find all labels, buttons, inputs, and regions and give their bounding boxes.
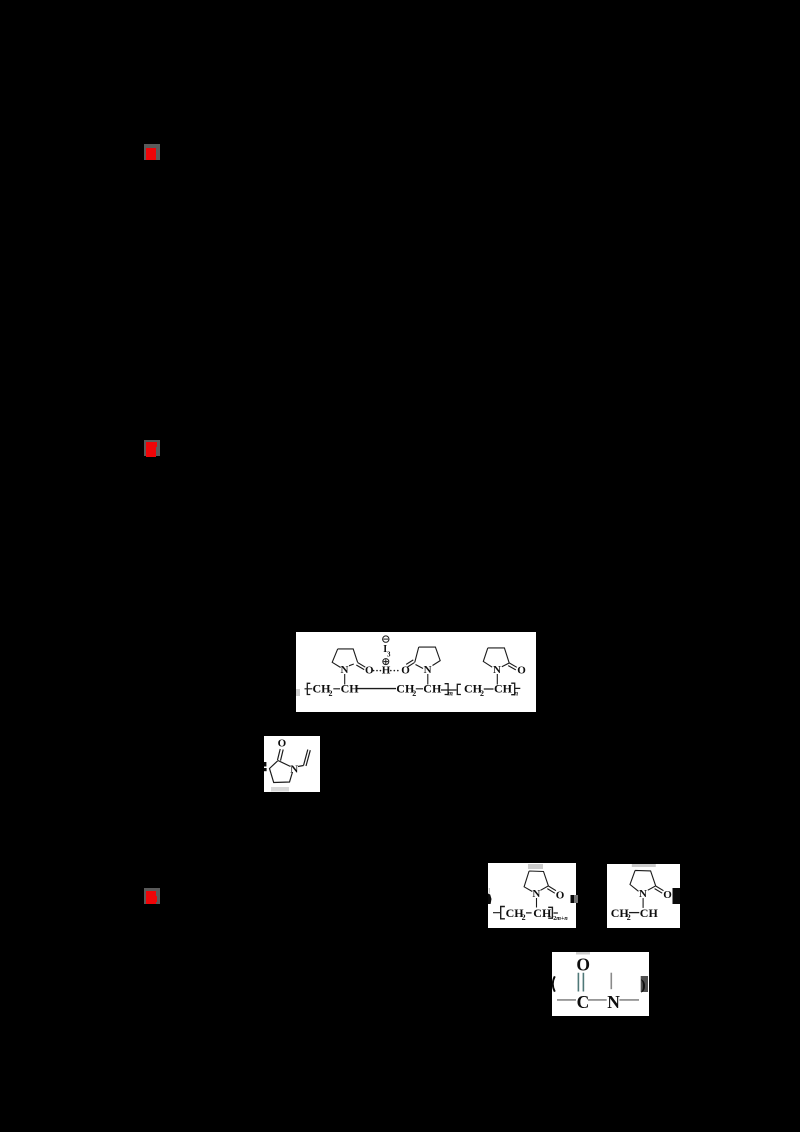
CH2-CH bond dash [629, 912, 639, 914]
N-vinyl single bond [298, 766, 304, 767]
image box 4 : poly(vinylpyrrolidone) repeat unit [488, 863, 576, 928]
svg-text:O: O [401, 664, 410, 676]
svg-text:O: O [556, 890, 565, 902]
polymer bracket open [501, 907, 505, 919]
icon placeholder 3 (gray square with red glyph) [144, 888, 160, 904]
right edge dark patch with paren [641, 976, 648, 992]
svg-text:H: H [382, 665, 391, 677]
svg-text:N: N [290, 763, 298, 775]
bond dashes in backbone [305, 688, 521, 690]
backbone dashes [493, 912, 558, 914]
gray fragment right of box 4 [574, 895, 578, 904]
ring 2 C=O double bond [406, 660, 414, 667]
svg-text:N: N [532, 888, 540, 900]
image box 6 : amide group C(=O)-N [552, 952, 649, 1016]
polymer bracket close [548, 907, 552, 918]
ring 2 pyrrolidone [415, 647, 440, 668]
gray bonds [557, 973, 639, 1000]
faint line above glyph [489, 888, 490, 894]
right edge black mark [673, 888, 681, 904]
top gray smudge [528, 864, 543, 869]
svg-text:O: O [365, 664, 374, 676]
svg-text:2: 2 [522, 913, 526, 922]
svg-text:CH: CH [533, 906, 552, 920]
circled plus (H cation charge) [383, 659, 389, 665]
svg-text:CH: CH [494, 682, 513, 696]
svg-text:N: N [493, 664, 501, 676]
svg-text:CH: CH [640, 906, 659, 920]
svg-text:N: N [424, 664, 432, 676]
ring 3 C=O double bond [508, 663, 517, 670]
pyrrolidone ring [524, 871, 548, 892]
svg-text:O: O [278, 737, 287, 749]
ring 3 pyrrolidone [483, 648, 509, 667]
svg-text:2: 2 [412, 689, 416, 698]
svg-text:N: N [341, 664, 349, 676]
svg-text:n: n [514, 690, 518, 698]
svg-text:2: 2 [480, 689, 484, 698]
svg-text:CH: CH [423, 682, 442, 696]
pyrrolidone ring [630, 870, 656, 891]
svg-text:N: N [639, 888, 647, 900]
svg-text:CH: CH [341, 682, 360, 696]
svg-text:3: 3 [387, 651, 391, 659]
ring 1 N-CH backbone bond [344, 674, 346, 685]
right edge black mark [571, 895, 576, 903]
N-CH bond [536, 898, 538, 908]
svg-text:2m+n: 2m+n [553, 916, 568, 922]
svg-text:): ) [641, 978, 646, 994]
clipped black glyph on left edge [488, 894, 492, 905]
polymer bracket close 1 [445, 684, 449, 695]
svg-text:C: C [577, 992, 590, 1012]
C=O double bond [278, 749, 284, 761]
top gray smudge [576, 952, 590, 955]
svg-text:m: m [448, 690, 454, 698]
circled minus (I3 anion charge) [383, 636, 389, 642]
top gray smudge [632, 864, 656, 867]
hydrogen-bond dots O...H...O [373, 670, 399, 672]
ring 2 N-CH backbone bond [427, 674, 429, 685]
pyrrolidone ring [270, 761, 293, 783]
icon placeholder 1 (gray square with red glyph) [144, 144, 160, 160]
image box 1 : PVP-iodine complex structure [296, 632, 536, 712]
clipped black glyph fragments on left edge [264, 762, 266, 767]
polymer bracket open 2 [457, 684, 461, 694]
icon placeholder 2 (gray square with red glyph) [144, 440, 160, 456]
clipped black paren on left edge [553, 976, 555, 991]
svg-text:N: N [607, 992, 620, 1012]
svg-text:O: O [576, 955, 590, 975]
svg-text:2: 2 [627, 913, 631, 922]
ring 1 pyrrolidone [332, 649, 357, 668]
image box 5 : vinylpyrrolidone unit CH2-CH [607, 864, 680, 928]
svg-text:2: 2 [329, 689, 333, 698]
vinyl C=C double bond [304, 750, 311, 767]
svg-text:O: O [663, 889, 672, 901]
ring 3 N-CH backbone bond [496, 674, 498, 685]
C=O double bond [655, 886, 664, 893]
backbone long bond CH to CH2 [357, 688, 396, 690]
polymer bracket close 2 [511, 683, 515, 695]
N-CH bond [642, 898, 644, 908]
polymer bracket open 1 [307, 683, 310, 694]
C=O double bond (teal-gray) [578, 973, 583, 992]
faint gray smudge left edge [296, 689, 300, 696]
C=O double bond [547, 886, 556, 893]
bottom gray smudge [271, 787, 289, 792]
ring 1 C=O double bond [356, 663, 365, 670]
image box 2 : N-vinylpyrrolidone monomer [264, 736, 320, 792]
svg-text:O: O [517, 664, 526, 676]
